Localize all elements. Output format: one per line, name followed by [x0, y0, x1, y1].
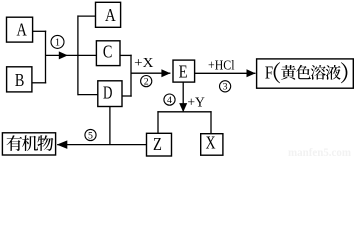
wire from B right edge [32, 82, 46, 84]
text 黄 [281, 65, 296, 80]
text 机 [22, 135, 38, 151]
svg-text:4: 4 [167, 95, 172, 106]
wire arrow +X into E [131, 72, 170, 74]
label circled number 3 [220, 81, 231, 92]
svg-text:D: D [103, 83, 112, 103]
svg-text:+Y: +Y [187, 96, 205, 111]
wire drop to Z [157, 111, 159, 133]
text ） [341, 62, 348, 83]
svg-text:B: B [15, 70, 25, 90]
box D [98, 81, 122, 107]
svg-text:A: A [105, 5, 116, 25]
svg-text:E: E [179, 61, 188, 81]
wire to A2 [78, 15, 96, 17]
text （ [274, 62, 281, 83]
wire bracket of group A,C,D [77, 15, 79, 95]
text 物 [37, 135, 53, 151]
text 色 [296, 65, 311, 79]
svg-text:Z: Z [153, 134, 162, 154]
box A1 [7, 17, 33, 42]
svg-text:F: F [265, 62, 273, 82]
wire arrow +HCl from E to F [195, 72, 256, 74]
wire from C right edge [120, 54, 132, 56]
box E [173, 60, 195, 82]
wire drop to X [210, 111, 212, 134]
label circled number 1 [51, 35, 64, 48]
svg-text:X: X [206, 133, 216, 153]
wire to D left edge [78, 94, 98, 96]
box F [257, 59, 354, 88]
wire Y-split horizontal [157, 111, 211, 113]
wire down from D bottom [109, 107, 111, 145]
wire from A1 right edge [33, 30, 47, 32]
text 溶 [311, 65, 326, 80]
svg-text:C: C [103, 41, 113, 61]
box A2 [96, 2, 121, 27]
svg-text:+HCl: +HCl [208, 57, 235, 72]
svg-text:A: A [16, 20, 26, 40]
svg-text:+X: +X [134, 56, 153, 71]
wire arrow down from E (step 4) [182, 82, 184, 111]
box B [7, 67, 32, 92]
label circled number 4 [164, 94, 175, 105]
svg-text:manfen5.com: manfen5.com [288, 147, 351, 158]
wire bracket joining C and D outputs [130, 55, 132, 97]
text 液 [326, 65, 341, 80]
label circled number 2 [141, 76, 152, 87]
box organic (有机物) [2, 133, 55, 155]
box Z [147, 133, 172, 156]
svg-text:1: 1 [55, 38, 60, 49]
svg-text:5: 5 [88, 130, 93, 141]
box X [201, 134, 223, 156]
svg-text:3: 3 [223, 82, 228, 93]
wire from D right edge [122, 95, 132, 97]
text 有 [7, 135, 23, 151]
wire arrow 5: Z to organic box [57, 144, 146, 146]
svg-text:2: 2 [144, 76, 149, 87]
label circled number 5 [85, 129, 96, 140]
wire bracket joining A and B [45, 31, 47, 84]
wire arrow 1: A+B to group, continues to C [46, 54, 97, 56]
box C [96, 41, 120, 66]
